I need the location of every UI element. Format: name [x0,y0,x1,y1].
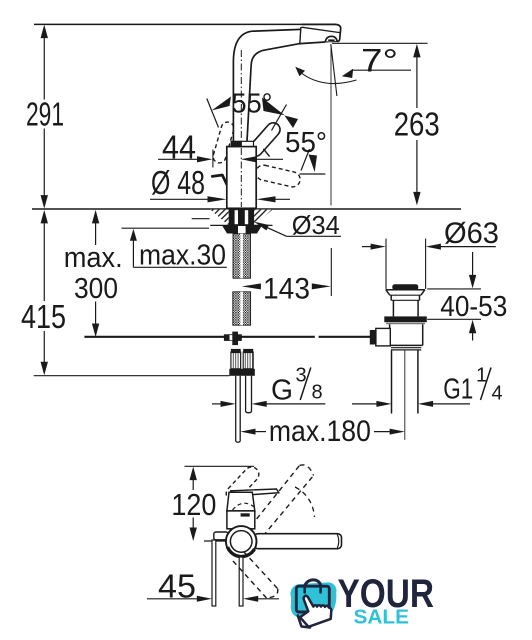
dim 120 top tick [185,465,255,467]
faucet spout outline [233,24,340,141]
threaded rod section 1 [233,234,251,278]
dimension 44 [158,129,283,168]
svg-text:45: 45 [158,568,196,605]
55deg right tangent line [272,105,287,131]
top reference line (291 upper datum) [34,23,336,25]
7 deg leader line [352,69,411,71]
counter hatch left wedge [210,210,228,226]
mount shank left [212,540,216,606]
svg-text:G: G [271,375,293,407]
waste plug black cap [392,284,418,290]
dimension G1 1/4 [352,365,503,407]
logo hand [300,596,331,627]
dimension 291 [26,25,64,209]
7 deg arc [298,70,357,84]
dashed spout tube lowered position [233,552,278,599]
block white slot left [235,210,238,224]
lever solid capsule up-right position [246,120,283,159]
dimension max.30 (deck thickness) [130,229,227,272]
pivot ring outer [226,526,257,557]
counter hatch right wedge [254,210,272,226]
small washer line under counter [192,218,210,220]
spout tube (side view) [254,534,342,549]
svg-text:max.30: max.30 [139,240,226,272]
55deg left wedge arrowhead [212,97,232,111]
dimension 143 [242,248,331,306]
water stream vertical line [330,44,332,206]
threaded rod section 2 [233,292,251,325]
svg-text:263: 263 [394,106,440,143]
dimension max.180 [240,415,404,448]
head joint separator line [300,27,301,44]
svg-text:Ø63: Ø63 [444,217,499,250]
hose connector black band [229,369,255,376]
tube end cap line [337,535,339,549]
arm top edge [252,29,301,31]
dim 120 bottom tick [204,540,226,542]
rod cross fitting [224,334,242,341]
dimension max. 300 [64,210,123,337]
head interior sloped parting line (7 deg) [302,27,340,32]
svg-text:max.: max. [64,242,123,274]
waste lower body [390,324,423,350]
spout head top edge + right face [302,24,341,41]
mounting nut right half [246,225,262,233]
mount shank right [239,557,243,606]
outer bend curve + riser left edge [233,31,252,141]
pop-up rod horizontal [84,336,314,338]
dimension 40-53 reference lines [427,288,481,290]
supply hose right [246,376,252,413]
supply hose left [236,376,241,442]
logo bag handle [305,580,321,590]
body box (side view) [227,511,255,529]
fitting white center [230,335,237,340]
dimension G 3/8 [212,365,325,407]
collar under lever [231,141,253,146]
tailpipe centerline [404,350,406,440]
svg-text:7°: 7° [361,43,398,79]
svg-text:55°: 55° [285,127,327,159]
svg-text:Ø34: Ø34 [292,210,340,240]
svg-text:291: 291 [26,96,64,133]
svg-text:40-53: 40-53 [440,291,507,323]
pop-up waste: O63 extension lines [385,239,387,290]
fitting vertical stub [232,332,238,346]
countertop top surface line [32,208,461,210]
55deg left tangent line [207,99,219,128]
dimension 40-53 [440,252,507,341]
55deg2 horizontal reference line [300,173,326,175]
waste flange [386,290,425,317]
7 deg leader arrowhead [342,69,353,78]
dashed lever capsule (side view) [223,464,262,504]
waste lever socket [376,328,391,346]
waste O-ring black band [384,316,427,322]
svg-text:Ø 48: Ø 48 [151,164,205,201]
solid lever handle pointing left [212,175,227,185]
bag handle stubs [303,588,306,593]
svg-text:SALE: SALE [354,605,410,628]
7 deg tilted line [331,44,337,96]
svg-text:415: 415 [21,298,66,335]
stem line of solid capsule [263,149,269,157]
aerator dome base line [325,41,337,44]
collar black left part [231,142,242,147]
lever dashed capsule left position [212,121,236,165]
dashed arc inside housing [233,503,256,510]
aerator slot [328,39,334,41]
mounting black block under body [229,209,254,225]
svg-text:4: 4 [492,383,503,405]
cartridge housing trapezoid [227,492,255,511]
dashed spout tube raised position [251,465,314,536]
hose connector left [231,349,241,369]
svg-text:max.180: max.180 [269,415,371,448]
7 deg arc arrowhead [295,67,305,76]
hose connector right [243,349,253,369]
pivot ring dark bottom arc [228,547,255,557]
waste tailpipe [391,350,393,414]
svg-text:143: 143 [263,273,310,306]
dimension O48 [150,164,290,202]
lever dashed capsule horizontal position [254,164,301,189]
logo teal blob [290,582,336,617]
55deg2 tangent line [301,149,310,171]
mounting nut left half [222,225,238,233]
svg-text:300: 300 [74,273,118,305]
pop-up rod horizontal right part [319,336,377,338]
body centerline inside [240,148,242,207]
dimension 415 [21,210,66,375]
svg-text:G1: G1 [443,373,473,405]
415 bottom datum line [34,375,230,377]
body centerline dash-dot [240,50,242,207]
dimension 120 [171,467,216,541]
pivot knob tab [214,532,228,540]
55deg2 wedge [309,155,318,173]
logo bag [296,586,329,612]
55deg right bowtie wedge A [262,98,285,116]
dimension 45 [147,568,279,605]
counter bottom under hatch [210,224,272,226]
svg-text:44: 44 [162,129,196,166]
hand thumb stroke [298,616,310,628]
label O34 with leader [254,210,341,240]
svg-text:8: 8 [312,382,323,404]
dimension 263 [332,43,440,205]
gray seal line [386,323,425,325]
aerator dome [325,36,337,42]
head and arm bottom edge [266,42,325,50]
dashed swing arc [295,487,315,517]
socket black band [370,330,377,345]
body slot black [241,513,250,516]
inner bend curve + riser right edge [247,50,266,142]
block white slot right [245,210,248,224]
svg-text:120: 120 [171,487,216,522]
pivot ring inner [230,531,252,553]
dimension O63 [362,217,499,250]
countertop bottom surface line left [121,227,209,229]
faucet body [227,147,256,209]
solid lever bar (side view) [231,489,279,496]
55deg right bowtie wedge B [285,116,299,129]
